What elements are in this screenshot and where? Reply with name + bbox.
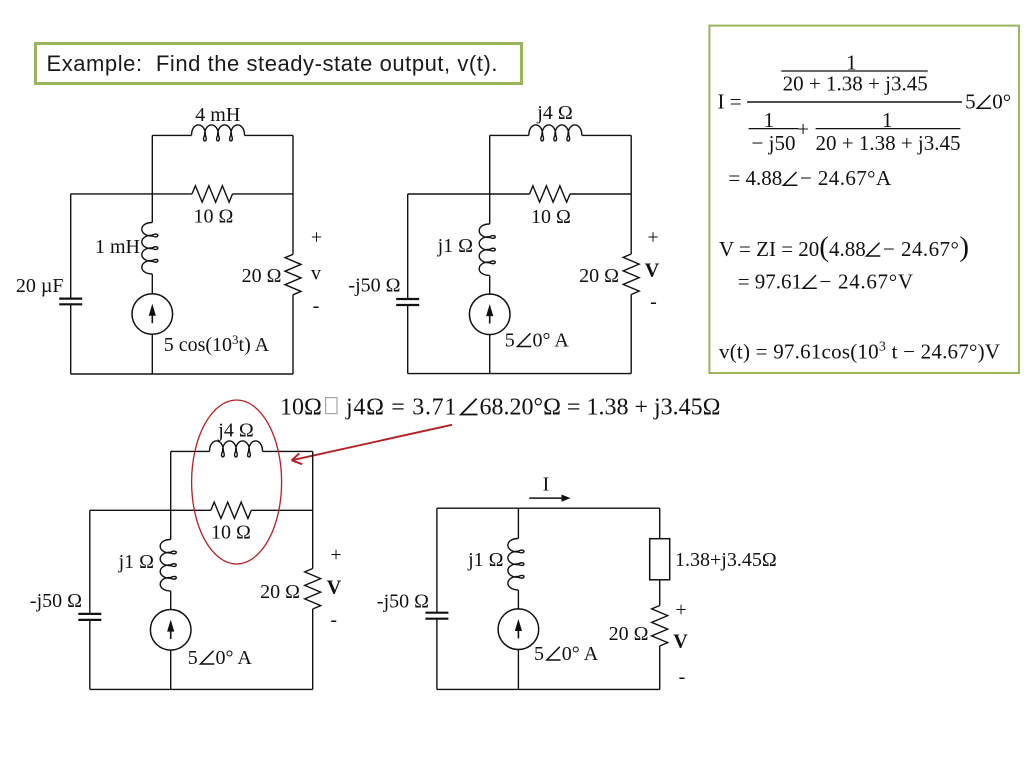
svg-text:5: 5 — [965, 89, 976, 113]
svg-text:-j50 Ω: -j50 Ω — [348, 275, 400, 297]
svg-text:20 + 1.38 + j3.45: 20 + 1.38 + j3.45 — [783, 72, 928, 96]
circuit 2: inductor j1 Ω (center branch) — [479, 224, 495, 275]
circuit 4: current source 5∠0° A — [498, 609, 539, 650]
circuit 4: wire, right branch lower — [659, 646, 661, 689]
title box: Example: Find the steady-state output, v(t). — [34, 42, 523, 85]
circuit 1: wire, middle row left (node A to resistor) — [71, 193, 192, 195]
svg-text:I: I — [543, 474, 550, 496]
circuit 2: wire, right branch upper — [630, 135, 632, 254]
svg-text:V: V — [327, 577, 342, 599]
svg-text:0°: 0° — [992, 89, 1011, 113]
circuit 4: wire, left branch upper — [436, 508, 438, 613]
circuit 2: resistor 20 Ω (output) — [623, 254, 639, 295]
svg-text:1.38+j3.45Ω: 1.38+j3.45Ω — [675, 549, 777, 571]
circuit 1: wire, left branch lower (capacitor bottom lead) — [70, 304, 72, 374]
circuit 3: resistor 10 Ω (middle row) — [211, 502, 252, 518]
svg-text:+: + — [311, 227, 322, 249]
circuit 4: wire, center branch between j1 Ω and source — [517, 590, 519, 609]
svg-text:− 24.67°): − 24.67°) — [883, 231, 969, 263]
circuit 4: wire, right branch between box and 20 Ω — [659, 580, 661, 606]
svg-text:− 24.67°A: − 24.67°A — [800, 166, 892, 190]
svg-text:-j50 Ω: -j50 Ω — [377, 591, 429, 613]
svg-text:j1 Ω: j1 Ω — [437, 235, 473, 257]
svg-text:-j50 Ω: -j50 Ω — [30, 590, 82, 612]
svg-text:− 24.67°V: − 24.67°V — [820, 269, 914, 293]
svg-text:V: V — [673, 631, 688, 653]
svg-text:j4 Ω: j4 Ω — [217, 420, 253, 442]
svg-text:10Ω: 10Ω — [280, 395, 322, 421]
circuit 2: wire, center branch below source — [489, 334, 491, 374]
circuit 3: resistor 20 Ω (output) — [305, 569, 321, 610]
circuit 3: wire, middle row left — [90, 509, 211, 511]
circuit 4: inductor j1 Ω (center branch) — [508, 539, 524, 590]
svg-text:-: - — [313, 295, 320, 317]
circuit 1: wire, right branch lower — [292, 295, 294, 374]
svg-text:5 cos(103t) A: 5 cos(103t) A — [164, 332, 270, 356]
circuit 3: wire, middle row right — [251, 509, 312, 511]
circuit 4: current direction arrow — [529, 497, 563, 499]
circuit 1: wire, center branch below source — [151, 334, 153, 374]
svg-text:-: - — [650, 291, 657, 313]
circuit 3: wire, bottom rail — [90, 688, 313, 690]
circuit 1: current source 5 cos(10^3 t) A — [132, 294, 173, 335]
circuit 2: inductor j4 Ω (top) — [529, 125, 582, 141]
svg-text:− j50: − j50 — [752, 131, 796, 155]
circuit 3: wire, top-left segment of top loop — [171, 450, 210, 452]
circuit 2: wire, top-left segment of top loop — [490, 134, 529, 136]
circuit 1: wire, bottom rail — [71, 373, 293, 375]
circuit 1: wire, right branch upper (to 20 Ω) — [292, 135, 294, 254]
svg-text:5: 5 — [505, 330, 515, 352]
svg-text:20 Ω: 20 Ω — [242, 265, 282, 287]
circuit 1: resistor 10 Ω (middle row) — [192, 186, 233, 202]
circuit 3: wire, left branch upper — [89, 510, 91, 614]
red annotation arrow pointing to parallel combination — [292, 425, 452, 461]
circuit 2: resistor 10 Ω (middle row) — [530, 186, 571, 202]
svg-text:20 Ω: 20 Ω — [609, 623, 649, 645]
circuit 2: wire, left branch upper — [407, 194, 409, 299]
circuit 1: wire, center branch between 1 mH and source — [151, 274, 153, 294]
circuit 4: impedance box 1.38+j3.45 Ω — [650, 539, 670, 580]
circuit 2: wire, top-right segment of top loop — [582, 134, 631, 136]
circuit 2: wire, bottom rail — [408, 373, 632, 375]
svg-text:+: + — [330, 544, 341, 566]
equation line 1: main fraction bar — [747, 101, 962, 103]
svg-text:j4 Ω: j4 Ω — [536, 102, 572, 124]
circuit 4: wire, top rail — [437, 507, 660, 509]
circuit 2: wire, right branch lower — [630, 294, 632, 373]
svg-text:-: - — [330, 609, 337, 631]
circuit 1: inductor 4 mH (top) — [192, 125, 245, 141]
circuit 1: wire, center branch upper (top node to 1 mH) — [151, 135, 153, 222]
svg-text:20 Ω: 20 Ω — [260, 581, 300, 603]
circuit 1: inductor 1 mH (center branch) — [142, 223, 158, 274]
circuit 1: resistor 20 Ω (output) — [285, 254, 301, 295]
circuit 3: wire, center branch upper (to j1 Ω) — [170, 451, 172, 539]
svg-text:10 Ω: 10 Ω — [211, 522, 251, 544]
svg-text:10 Ω: 10 Ω — [194, 206, 234, 228]
circuit 4: wire, bottom rail — [437, 688, 660, 690]
circuit 2: capacitor -j50 Ω — [396, 298, 419, 300]
svg-text:+: + — [647, 227, 658, 249]
circuit 3: wire, right branch lower — [312, 609, 314, 689]
circuit 3: capacitor -j50 Ω — [78, 613, 101, 615]
svg-text:20 µF: 20 µF — [16, 275, 64, 297]
circuit 1: wire, middle row right — [233, 193, 294, 195]
svg-text:V: V — [645, 259, 660, 281]
svg-text:+: + — [675, 599, 686, 621]
svg-text:I =: I = — [718, 89, 742, 113]
circuit 4: wire, center branch upper (to j1 Ω) — [517, 508, 519, 538]
circuit 4: wire, left branch lower — [436, 619, 438, 690]
circuit 1: wire, top-right segment of top loop — [245, 134, 294, 136]
svg-text:v(t) = 97.61cos(103 t − 24.67°: v(t) = 97.61cos(103 t − 24.67°)V — [719, 339, 1000, 363]
circuit 2: wire, middle row right — [570, 193, 631, 195]
svg-text:0° A: 0° A — [533, 330, 570, 352]
svg-text:20 Ω: 20 Ω — [579, 265, 619, 287]
svg-text:1 mH: 1 mH — [95, 236, 140, 258]
circuit 4: capacitor -j50 Ω — [425, 612, 448, 614]
circuit 3: inductor j4 Ω (top) — [210, 441, 263, 457]
circuit 1: wire, top-left segment of top loop — [152, 134, 191, 136]
circuit 3: wire, top-right segment of top loop — [263, 450, 313, 452]
circuit 4: resistor 20 Ω (output) — [652, 606, 668, 647]
circuit 3: current source 5∠0° A — [150, 610, 191, 651]
circuit 4: wire, right branch upper (to impedance box) — [659, 508, 661, 539]
svg-text:20 + 1.38 + j3.45: 20 + 1.38 + j3.45 — [815, 131, 960, 155]
circuit 1: wire, left branch upper (capacitor top lead) — [70, 194, 72, 299]
svg-text:j4Ω = 3.71: j4Ω = 3.71 — [345, 395, 457, 421]
circuit 1: capacitor 20 µF — [59, 298, 82, 300]
circuit 2: wire, center branch between j1 Ω and source — [489, 276, 491, 295]
svg-text:= 4.88: = 4.88 — [728, 166, 782, 190]
red ellipse highlighting 10 Ω ∥ j4 Ω combination — [192, 400, 282, 564]
svg-text:= 97.61: = 97.61 — [738, 269, 802, 293]
circuit 4: wire, center branch below source — [517, 649, 519, 690]
svg-text:5: 5 — [534, 643, 544, 665]
svg-text:68.20°Ω = 1.38 + j3.45Ω: 68.20°Ω = 1.38 + j3.45Ω — [480, 395, 721, 421]
svg-text:0° A: 0° A — [216, 647, 253, 669]
circuit 3: wire, right branch upper — [312, 451, 314, 568]
circuit 3: wire, left branch lower — [89, 620, 91, 690]
svg-text:V = ZI = 20(4.88: V = ZI = 20(4.88 — [719, 231, 866, 263]
circuit 2: wire, center branch upper (to j1 Ω) — [489, 135, 491, 224]
svg-text:+: + — [797, 117, 809, 141]
svg-text:-: - — [679, 666, 686, 688]
circuit 2: current source 5∠0° A — [469, 294, 510, 335]
circuit 3: wire, center branch below source — [170, 649, 172, 689]
svg-text:4 mH: 4 mH — [195, 104, 240, 126]
svg-text:j1 Ω: j1 Ω — [467, 549, 503, 571]
svg-text:10 Ω: 10 Ω — [531, 206, 571, 228]
svg-text:5: 5 — [188, 647, 198, 669]
equation box: green border — [709, 26, 1019, 373]
svg-text:v: v — [311, 263, 321, 285]
circuit 2: wire, middle row left — [408, 193, 530, 195]
svg-text:0° A: 0° A — [562, 643, 599, 665]
circuit 2: wire, left branch lower — [407, 305, 409, 374]
circuit 3: wire, center branch between j1 Ω and source — [170, 591, 172, 610]
svg-text:j1 Ω: j1 Ω — [118, 551, 154, 573]
circuit 3: inductor j1 Ω (center branch) — [160, 540, 176, 591]
